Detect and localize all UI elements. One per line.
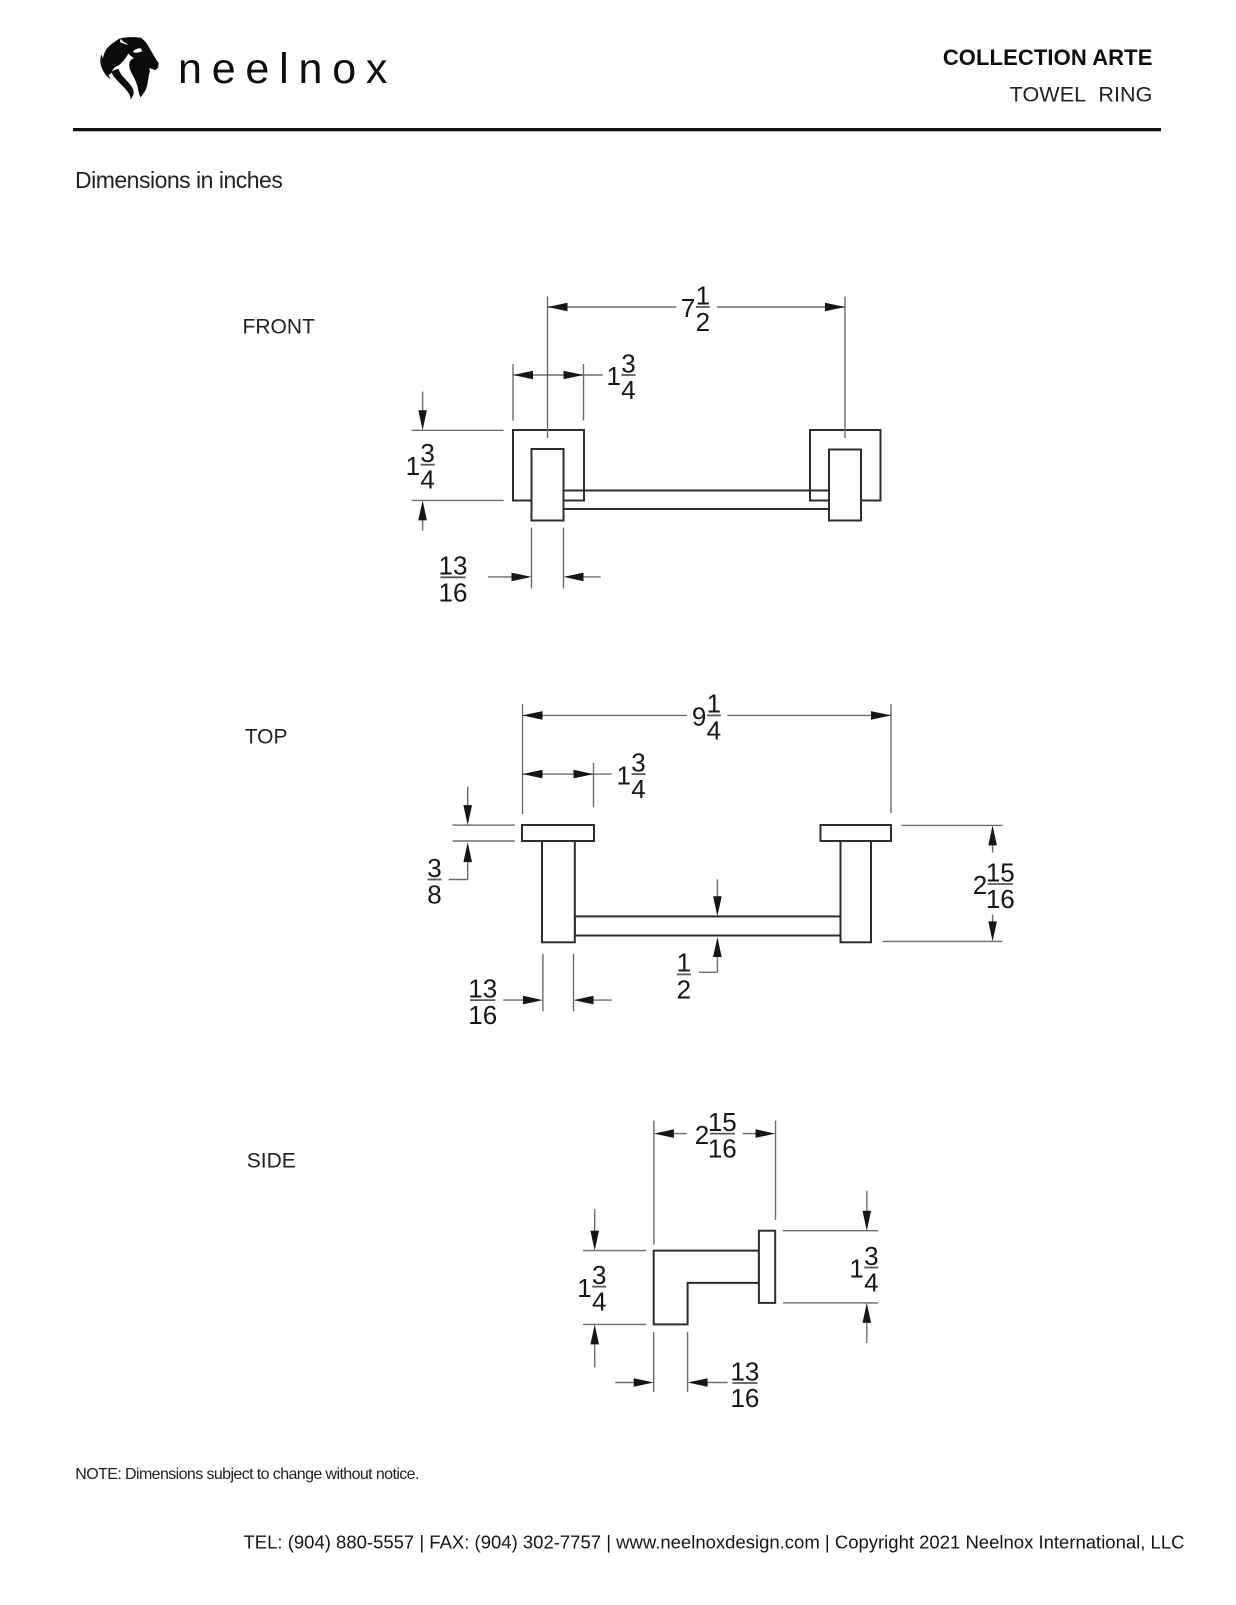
svg-text:4: 4 — [621, 375, 635, 405]
front: left wall plate — [513, 430, 584, 501]
svg-text:Dimensions in inches: Dimensions in inches — [75, 167, 282, 193]
top: right post — [841, 841, 872, 942]
top dim 1-3/4: dimension line and arrows — [523, 770, 612, 779]
top: left post — [542, 841, 575, 942]
front dim 7-1/2: label — [681, 280, 710, 337]
svg-text:9: 9 — [692, 702, 706, 732]
side: wall flange — [759, 1231, 775, 1303]
svg-text:4: 4 — [864, 1268, 878, 1298]
side: bracket L-profile — [654, 1251, 759, 1325]
side dim 1-3/4 left: label — [577, 1260, 606, 1317]
svg-text:3: 3 — [621, 348, 635, 378]
top dim 3/8: extension lines — [453, 825, 515, 841]
side dim 2-15/16: dimension line and arrows — [654, 1129, 776, 1138]
svg-text:1: 1 — [617, 760, 631, 790]
svg-text:TOWEL RING: TOWEL RING — [1010, 82, 1153, 106]
svg-text:neelnox: neelnox — [178, 45, 397, 93]
svg-text:16: 16 — [439, 577, 468, 607]
top: left flange — [522, 825, 594, 841]
side dim 1-3/4 right: label — [849, 1241, 878, 1298]
svg-text:8: 8 — [427, 880, 441, 910]
svg-text:13: 13 — [439, 551, 468, 581]
logo: horse head icon — [100, 37, 158, 100]
front: right post — [829, 450, 861, 521]
top: towel bar — [575, 916, 841, 935]
header rule — [73, 128, 1161, 131]
svg-text:3: 3 — [592, 1260, 606, 1290]
side dim 1-3/4 right: extension lines — [783, 1231, 878, 1303]
svg-text:3: 3 — [864, 1241, 878, 1271]
svg-text:16: 16 — [468, 1000, 497, 1030]
side dim 1-3/4 right: arrows and leaders — [863, 1191, 872, 1343]
svg-text:16: 16 — [730, 1383, 759, 1413]
top dim 1/2: arrows and leader — [699, 879, 722, 972]
svg-text:1: 1 — [577, 1273, 591, 1303]
svg-text:2: 2 — [973, 870, 987, 900]
svg-text:1: 1 — [707, 689, 721, 719]
svg-text:4: 4 — [592, 1287, 606, 1317]
front dim 13/16: extension lines — [532, 528, 564, 589]
side dim 2-15/16: label — [695, 1107, 737, 1164]
svg-text:13: 13 — [730, 1356, 759, 1386]
top dim 2-15/16: extension lines — [883, 825, 1003, 941]
svg-text:NOTE: Dimensions subject to ch: NOTE: Dimensions subject to change witho… — [75, 1466, 419, 1483]
top dim 1-3/4: extension line — [593, 763, 595, 808]
svg-text:TOP: TOP — [245, 725, 288, 748]
svg-text:13: 13 — [468, 973, 497, 1003]
svg-text:16: 16 — [986, 884, 1015, 914]
front: left post — [532, 449, 564, 521]
label: FRONT view — [243, 316, 315, 339]
front dim 13/16: dimension line and arrows — [488, 573, 601, 582]
svg-text:2: 2 — [677, 974, 691, 1004]
top dim 2-15/16: label — [973, 857, 1015, 914]
top dim 13/16: dimension line and arrows — [503, 996, 612, 1005]
svg-text:7: 7 — [681, 293, 695, 323]
svg-text:1: 1 — [677, 948, 691, 978]
front dim 7-1/2: dimension line and arrows — [548, 303, 846, 312]
top: right flange — [821, 825, 892, 841]
top dim 3/8: label — [427, 853, 441, 910]
top dim 9-1/4: dimension line and arrows — [523, 711, 892, 720]
label: SIDE view — [247, 1150, 296, 1173]
side dim 13/16: label — [730, 1356, 759, 1413]
front dim 1-3/4 width: label — [607, 348, 636, 405]
svg-text:1: 1 — [696, 280, 710, 310]
top dim 2-15/16: dimension line and arrows — [988, 825, 997, 941]
front dim 1-3/4 height: extension lines — [412, 430, 504, 500]
svg-text:4: 4 — [631, 774, 645, 804]
front dim 1-3/4 height: label — [406, 438, 435, 495]
svg-text:4: 4 — [420, 465, 434, 495]
svg-text:1: 1 — [406, 451, 420, 481]
logo wordmark: neelnox — [178, 45, 397, 93]
front: right wall plate — [810, 430, 881, 501]
front dim 1-3/4 width: extension lines — [513, 364, 584, 421]
front dim 1-3/4 width: dimension line and arrows — [513, 371, 603, 380]
svg-text:2: 2 — [695, 1120, 709, 1150]
caption: Dimensions in inches — [75, 167, 282, 193]
svg-text:1: 1 — [607, 361, 621, 391]
svg-text:3: 3 — [420, 438, 434, 468]
svg-text:15: 15 — [986, 857, 1015, 887]
svg-text:15: 15 — [708, 1107, 737, 1137]
svg-text:COLLECTION ARTE: COLLECTION ARTE — [943, 45, 1153, 70]
front dim 1-3/4 height: arrows and leaders — [418, 392, 427, 531]
svg-text:TEL: (904) 880-5557 | FAX: (90: TEL: (904) 880-5557 | FAX: (904) 302-775… — [244, 1532, 1185, 1553]
front dim 7-1/2: extension lines — [548, 297, 846, 439]
side dim 13/16: extension lines — [654, 1332, 688, 1392]
top dim 9-1/4: label — [692, 689, 721, 746]
front dim 13/16: label — [439, 551, 468, 608]
svg-text:2: 2 — [696, 307, 710, 337]
svg-text:1: 1 — [849, 1254, 863, 1284]
top dim 3/8: arrows and leader — [449, 787, 472, 880]
svg-text:FRONT: FRONT — [243, 316, 315, 339]
top dim 1/2: label — [677, 948, 691, 1005]
side dim 13/16: dimension line and arrows — [615, 1378, 727, 1387]
top dim 9-1/4: extension lines — [523, 704, 892, 814]
header title: COLLECTION ARTE — [943, 45, 1153, 70]
top dim 13/16: label — [468, 973, 497, 1030]
label: TOP view — [245, 725, 288, 748]
svg-text:3: 3 — [427, 853, 441, 883]
top dim 13/16: extension lines — [543, 954, 574, 1011]
svg-text:4: 4 — [707, 715, 721, 745]
side dim 2-15/16: extension lines — [654, 1121, 776, 1245]
svg-text:SIDE: SIDE — [247, 1150, 296, 1173]
footnote — [75, 1466, 419, 1483]
side dim 1-3/4 left: extension lines — [583, 1251, 646, 1325]
svg-text:3: 3 — [631, 747, 645, 777]
side dim 1-3/4 left: arrows and leaders — [590, 1209, 599, 1367]
footer contact line — [244, 1532, 1185, 1553]
top dim 1-3/4: label — [617, 747, 646, 804]
header subtitle: TOWEL RING — [1010, 82, 1153, 106]
front: towel bar — [564, 491, 830, 510]
svg-text:16: 16 — [708, 1134, 737, 1164]
